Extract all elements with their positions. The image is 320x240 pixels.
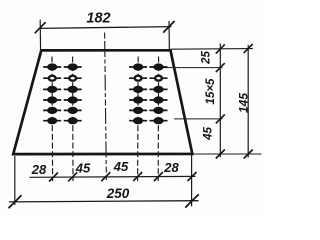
svg-text:45: 45 [75,161,91,176]
svg-text:25: 25 [200,51,212,65]
hole column centerline c2 [72,57,74,182]
rivet hole r2c1 [49,76,56,81]
rivet hole r1c4 [154,64,163,70]
rivet hole r1c1 [48,64,57,70]
rivet hole r2c4 centerline tick [150,77,168,79]
rivet hole r6c2 centerline tick [64,120,82,122]
dimension 182: left extension line [39,20,41,54]
rivet hole r2c2 [69,76,76,81]
rivet hole r1c2 centerline tick [64,66,82,68]
rivet hole r4c4 centerline tick [150,99,168,101]
svg-text:45: 45 [203,127,215,141]
rivet hole r4c1 [48,97,57,103]
rivet hole r3c2 centerline tick [64,88,82,90]
dimension 182: right extension line [168,21,170,50]
bottom chain: right extension line [191,155,193,207]
dimension 250: dimension line [9,201,199,202]
svg-text:28: 28 [163,160,179,175]
svg-text:28: 28 [31,162,47,177]
rivet hole r1c3 [134,64,143,70]
paper background [0,0,266,218]
rivet hole r5c4 centerline tick [150,109,168,111]
rivet hole r3c1 [48,86,57,92]
bottom chain: left extension line [14,156,16,205]
rivet hole r2c2 centerline tick [64,77,82,79]
rivet hole r5c3 centerline tick [129,109,147,111]
rivet hole r1c3 centerline tick [129,66,147,68]
svg-text:250: 250 [106,186,130,201]
right chain: bottom extension line [192,153,261,155]
svg-text:15×5: 15×5 [205,78,217,105]
tick A bottom [216,150,225,159]
rivet hole r6c4 [154,118,163,124]
chain tick c3 [133,172,142,181]
tick A row6 [216,114,225,123]
chain tick c2 [68,172,77,181]
rivet hole r6c4 centerline tick [150,120,168,122]
rivet hole r6c3 [134,118,143,124]
svg-text:182: 182 [86,11,110,27]
rivet hole r4c3 [134,97,143,103]
rivet hole r5c1 [48,107,57,113]
rivet hole r6c2 [68,118,77,124]
rivet hole r4c1 centerline tick [43,99,61,101]
right chain: dimension line A (25 / 15x5 / 45) [219,44,221,158]
tick B bottom [244,150,253,159]
rivet hole r3c1 centerline tick [43,88,61,90]
rivet hole r3c2 [68,86,77,92]
hole column centerline c1 [51,57,54,182]
rivet hole r5c2 [68,107,77,113]
dimension 182: left tick [35,22,46,33]
right chain: dimension line B (145) [247,45,249,158]
trapezoid plate outline [13,50,192,154]
svg-text:45: 45 [113,159,129,174]
rivet hole r3c4 [154,86,163,92]
rivet hole r4c2 [68,97,77,103]
dimension 182: right tick [163,21,174,33]
chain tick axis [101,172,110,181]
right chain: top extension line [171,48,253,51]
rivet hole r2c1 centerline tick [43,77,61,79]
rivet hole r3c4 centerline tick [150,88,168,90]
rivet hole r4c2 centerline tick [64,99,82,101]
rivet hole r5c3 [134,107,143,113]
rivet hole r2c3 [135,76,142,81]
rivet hole r5c1 centerline tick [43,109,61,111]
tick A top [216,44,225,53]
hole column centerline c3 [137,57,140,182]
chain tick right [188,172,197,181]
rivet hole r2c4 [155,76,162,81]
rivet hole r1c1 centerline tick [43,66,61,68]
rivet hole r2c3 centerline tick [129,77,147,79]
right chain: row1 extension line [164,67,223,69]
rivet hole r4c3 centerline tick [129,99,147,101]
rivet hole r6c1 centerline tick [43,120,61,122]
rivet hole r5c4 [154,107,163,113]
rivet hole r6c1 [48,118,57,124]
rivet hole r5c2 centerline tick [64,109,82,111]
rivet hole r4c4 [154,97,163,103]
chain tick c4 [154,172,163,181]
rivet hole r3c3 [134,86,143,92]
dimension 250: right tick [185,194,198,207]
right chain: row6 extension line [174,118,223,120]
tick A row1 [216,63,225,72]
hole column centerline c4 [157,57,159,182]
chain tick c1 [49,173,58,182]
axis centerline (vertical, dash-dot) [105,33,107,181]
rivet hole r1c4 centerline tick [150,66,168,68]
rivet hole r1c2 [68,64,77,70]
svg-text:145: 145 [236,93,250,113]
dimension 182: dimension line [40,27,172,29]
tick B top [244,44,253,53]
dimension 250: left tick [9,195,22,208]
rivet hole r3c3 centerline tick [129,88,147,90]
rivet hole r6c3 centerline tick [129,120,147,122]
bottom chain: dimension line [30,175,196,178]
